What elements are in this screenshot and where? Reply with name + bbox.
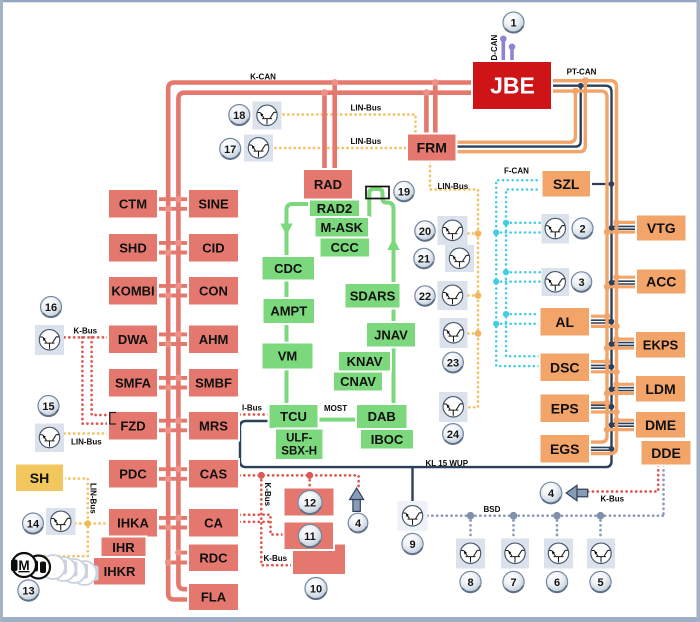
svg-text:CID: CID — [202, 240, 224, 255]
junction LIN-Bus at SH column — [85, 520, 92, 527]
node ball 9 — [402, 533, 423, 554]
module CCC — [320, 238, 371, 258]
wire F-CAN branch A to unit 2 — [506, 222, 542, 225]
svg-text:DME: DME — [645, 417, 676, 433]
wire K-CAN row stub upper row2 — [158, 241, 189, 245]
wire PT-CAN stub EPS lower — [590, 410, 617, 413]
junction navy stub — [609, 225, 615, 231]
module SH — [15, 464, 64, 493]
module DME — [635, 411, 686, 439]
svg-text:LDM: LDM — [645, 381, 675, 397]
svg-text:M: M — [18, 558, 29, 573]
node ball 15 — [38, 396, 59, 417]
node ball 18 — [229, 105, 250, 126]
svg-text:MOST: MOST — [324, 404, 347, 413]
junction PT-CAN LDM lower — [604, 390, 610, 396]
module box 10 — [292, 544, 346, 576]
svg-text:13: 13 — [22, 585, 34, 597]
wire PT-CAN stub DME lower — [607, 428, 635, 431]
wire PT-CAN stub DME upper — [617, 419, 636, 422]
svg-text:DWA: DWA — [118, 332, 149, 347]
antenna unit 9 — [398, 501, 428, 531]
module AL — [540, 307, 591, 337]
junction K-CAN row2 upper — [175, 240, 182, 247]
junction K-CAN FRM a — [432, 79, 439, 86]
svg-text:1: 1 — [510, 17, 516, 29]
wire K-CAN row stub upper row5 — [158, 376, 189, 380]
module DAB — [356, 404, 408, 429]
connector 19 diagnostic link — [366, 187, 389, 199]
wire K-CAN row stub lower row6 — [158, 428, 189, 432]
svg-text:SHD: SHD — [119, 240, 146, 255]
wire BSD drop to unit 6 — [556, 516, 559, 539]
svg-text:12: 12 — [304, 497, 316, 509]
wire K-CAN row stub lower row2 — [158, 251, 189, 255]
module CID — [188, 233, 239, 263]
module AHM — [188, 325, 239, 355]
svg-text:11: 11 — [304, 531, 316, 543]
wire F-CAN line A SZL to DSC — [496, 180, 541, 366]
junction K-CAN RDC lower — [165, 559, 172, 566]
junction F-CAN — [503, 311, 509, 317]
svg-text:ACC: ACC — [646, 274, 676, 290]
arrow 4 up near box 12 — [350, 488, 364, 511]
svg-text:19: 19 — [398, 186, 410, 198]
wire K-CAN row stub lower row4 — [158, 342, 189, 346]
svg-text:IHKA: IHKA — [117, 515, 149, 530]
module M-ASK — [315, 217, 370, 238]
svg-text:14: 14 — [27, 518, 40, 530]
wire navy stub ACC — [612, 281, 637, 284]
wire navy stub SZL — [591, 183, 612, 185]
module SMFA — [108, 368, 158, 398]
wire K-Bus drop b to FZD — [82, 337, 108, 423]
wire D-CAN pin b — [510, 47, 514, 62]
connector bracket at FZD — [110, 413, 116, 425]
wire LIN-Bus trunk from FRM bottom down middle — [430, 162, 478, 408]
wire navy stub EGS — [590, 447, 612, 450]
antenna unit 3 — [542, 268, 570, 296]
svg-text:EPS: EPS — [551, 400, 579, 416]
svg-text:24: 24 — [447, 429, 460, 441]
module ULF-SBX-H — [275, 429, 324, 461]
wire K-CAN row stub upper row1 — [158, 197, 189, 201]
wire MOST left branch RAD2 to TCU — [287, 204, 310, 404]
antenna unit 18 — [253, 102, 282, 130]
wire LIN-Bus branch to unit 22 — [468, 294, 478, 297]
module FRM — [407, 134, 457, 162]
svg-text:RDC: RDC — [199, 550, 228, 565]
svg-text:MRS: MRS — [199, 418, 228, 433]
svg-text:RAD: RAD — [314, 177, 342, 192]
junction navy stub — [609, 386, 615, 392]
junction F-CAN — [493, 321, 499, 327]
junction F-CAN — [503, 220, 509, 226]
terminal D-CAN a — [500, 36, 507, 43]
svg-text:23: 23 — [447, 357, 459, 369]
svg-text:CTM: CTM — [119, 196, 147, 211]
node ball 1 — [503, 12, 524, 33]
svg-text:4: 4 — [355, 518, 362, 530]
svg-text:FLA: FLA — [201, 590, 227, 605]
svg-text:21: 21 — [418, 253, 430, 265]
arrow MOST direction up — [387, 238, 399, 250]
wire F-CAN branch A to AL — [506, 313, 540, 316]
module DWA — [108, 325, 158, 355]
junction LIN-Bus on trunk at unit 23 — [475, 330, 482, 337]
wire LIN-Bus branch to unit 23 — [468, 332, 478, 335]
svg-text:22: 22 — [419, 291, 431, 303]
svg-text:VM: VM — [278, 349, 298, 364]
wire K-CAN drop to FRM a — [433, 83, 438, 135]
wire K-Bus drop a to FZD — [92, 337, 108, 415]
junction K-CAN row1 lower — [165, 206, 172, 213]
terminal D-CAN b — [509, 44, 516, 51]
module DSC — [540, 353, 591, 383]
svg-text:IHR: IHR — [112, 540, 135, 555]
module DDE — [641, 440, 692, 466]
junction K-CAN RAD a — [331, 79, 338, 86]
wire K-CAN row stub upper row4 — [158, 332, 189, 336]
wire K-Bus from CAS to arrow 4 — [240, 475, 359, 486]
module box 12 — [284, 488, 335, 517]
wire LIN-Bus from unit 17 to FRM left — [276, 147, 408, 150]
wire K-CAN drop to FRM b — [424, 93, 429, 134]
junction navy stub — [609, 446, 615, 452]
antenna unit 17 — [244, 135, 273, 162]
svg-text:AMPT: AMPT — [270, 304, 307, 319]
module CON — [188, 276, 239, 306]
svg-text:CAS: CAS — [200, 466, 228, 481]
wire K-CAN row stub lower row5 — [158, 386, 189, 390]
junction PT-CAN AL lower — [613, 323, 619, 329]
svg-text:10: 10 — [310, 583, 322, 595]
svg-text:CCC: CCC — [331, 240, 360, 255]
node ball 16 — [41, 297, 62, 318]
arrow 4 left near DDE — [566, 485, 588, 500]
junction BSD — [553, 512, 561, 520]
node ball 17 — [220, 138, 241, 159]
wire navy stub VTG — [612, 226, 637, 229]
junction K-CAN row4 lower — [165, 341, 172, 348]
junction PT-CAN ACC lower — [604, 284, 610, 290]
wire K-CAN upper from JBE to left spine — [168, 83, 472, 600]
module ACC — [636, 269, 687, 295]
svg-text:16: 16 — [45, 302, 57, 314]
wire LIN-Bus branch unit 14 to IHKA — [76, 522, 109, 525]
svg-text:JNAV: JNAV — [374, 327, 408, 342]
module KNAV — [338, 351, 391, 372]
wire PT-CAN orange loop a JBE to FRM — [457, 91, 576, 142]
junction PT-CAN VTG upper — [613, 219, 619, 225]
node ball 21 — [414, 248, 434, 268]
svg-text:SMBF: SMBF — [195, 375, 232, 390]
module FLA — [188, 583, 239, 611]
wire PT-CAN navy backbone from JBE to KL15 corner — [240, 86, 612, 467]
svg-text:9: 9 — [409, 539, 415, 551]
junction BSD — [467, 512, 475, 520]
svg-text:LIN-Bus: LIN-Bus — [438, 182, 469, 191]
junction LIN-Bus on trunk at unit 22 — [475, 292, 482, 299]
svg-text:JBE: JBE — [490, 73, 535, 99]
wire PT-CAN stub LDM lower — [607, 392, 635, 395]
module MRS — [188, 411, 239, 441]
junction navy SZL — [609, 181, 615, 187]
junction F-CAN — [503, 269, 509, 275]
antenna unit 6 — [544, 539, 573, 569]
node ball 14 — [23, 513, 44, 534]
wire PT-CAN stub AL upper — [590, 315, 607, 318]
junction K-CAN row8 upper — [175, 515, 182, 522]
svg-text:4: 4 — [548, 488, 555, 500]
module JNAV — [366, 322, 416, 348]
junction K-CAN row8 lower — [165, 524, 172, 531]
outer frame border — [0, 0, 700, 2]
antenna unit 23 — [440, 318, 468, 348]
wire PT-CAN stub ACC lower — [607, 285, 636, 288]
wire K-CAN stub RDC upper — [178, 551, 188, 555]
svg-text:KOMBI: KOMBI — [111, 283, 154, 298]
wire K-Bus CA to box 11 upper — [240, 515, 284, 535]
module SMBF — [188, 368, 239, 398]
motor actuator chain — [11, 553, 99, 585]
junction K-CAN row7 upper — [175, 466, 182, 473]
antenna unit 2 — [542, 214, 570, 244]
wire PT-CAN stub VTG lower — [607, 230, 636, 233]
junction K-CAN row6 upper — [175, 417, 182, 424]
module FZD — [108, 411, 158, 441]
module RDC — [188, 544, 239, 573]
svg-text:DAB: DAB — [368, 409, 396, 424]
junction navy stub — [609, 280, 615, 286]
junction PT-CAN VTG lower — [604, 229, 610, 235]
junction navy stub — [609, 341, 615, 347]
module IHKR — [93, 557, 146, 586]
junction K-CAN row1 upper — [175, 196, 182, 203]
svg-text:LIN-Bus: LIN-Bus — [351, 137, 382, 146]
junction PT-CAN ACC upper — [613, 274, 619, 280]
junction LIN-Bus on trunk at unit 20 — [475, 230, 482, 237]
wire PT-CAN stub AL lower — [590, 325, 617, 328]
wire LIN-Bus branch to unit 20 — [468, 232, 478, 235]
wire BSD drop to unit 5 — [599, 516, 602, 539]
junction K-CAN row2 lower — [165, 249, 172, 256]
wire I-Bus MRS to TCU — [240, 413, 269, 416]
wire K-Bus unit 16 to DWA — [65, 336, 109, 339]
wire K-CAN row stub lower row7 — [158, 477, 189, 481]
junction K-CAN row5 upper — [175, 375, 182, 382]
module CAS — [188, 459, 239, 489]
module PDC — [108, 459, 158, 489]
junction navy on loop — [578, 83, 584, 89]
wire PT-CAN stub LDM upper — [617, 383, 636, 386]
junction BSD — [510, 512, 518, 520]
junction navy stub — [609, 422, 615, 428]
wire PT-CAN stub EKPS lower — [607, 347, 635, 350]
svg-text:FRM: FRM — [417, 140, 447, 156]
module JBE junction box — [472, 61, 552, 110]
svg-text:K-CAN: K-CAN — [250, 73, 276, 82]
svg-text:F-CAN: F-CAN — [504, 167, 529, 176]
module LDM — [635, 375, 686, 403]
svg-text:5: 5 — [597, 577, 603, 589]
junction navy stub — [609, 404, 615, 410]
wire K-CAN row stub lower row3 — [158, 294, 189, 298]
junction PT-CAN on loop b — [582, 77, 589, 84]
junction F-CAN — [493, 279, 499, 285]
svg-text:17: 17 — [224, 144, 236, 156]
svg-text:3: 3 — [578, 277, 584, 289]
junction PT-CAN DSC lower — [613, 369, 619, 375]
node ball 2 — [572, 218, 593, 239]
wire F-CAN branch B to unit 3 — [496, 280, 541, 283]
junction PT-CAN EKPS upper — [613, 336, 619, 342]
wire BSD trunk from unit 9 to DDE column — [428, 514, 664, 517]
wire navy stub EPS — [590, 405, 612, 408]
svg-text:LIN-Bus: LIN-Bus — [89, 483, 98, 514]
svg-text:RAD2: RAD2 — [317, 201, 352, 216]
antenna unit 8 — [456, 539, 485, 569]
antenna unit 7 — [501, 539, 529, 569]
node ball 5 — [590, 571, 611, 592]
svg-text:IHKR: IHKR — [104, 564, 136, 579]
wire K-Bus branch to box 12 — [308, 475, 311, 487]
svg-text:LIN-Bus: LIN-Bus — [351, 104, 382, 113]
wire K-CAN row stub upper row8 — [158, 516, 189, 520]
module SDARS — [345, 283, 401, 309]
wire PT-CAN stub VTG upper — [617, 221, 637, 224]
svg-text:M-ASK: M-ASK — [320, 220, 363, 235]
wire K-CAN row stub upper row3 — [158, 284, 189, 288]
junction K-CAN row7 lower — [165, 476, 172, 483]
module EPS — [540, 394, 591, 424]
svg-text:FZD: FZD — [120, 418, 145, 433]
junction PT-CAN on loop a — [572, 88, 579, 95]
wire PT-CAN stub EKPS upper — [617, 338, 636, 341]
module VTG — [636, 215, 687, 242]
svg-text:2: 2 — [579, 223, 585, 235]
svg-text:PDC: PDC — [119, 466, 147, 481]
svg-text:SMFA: SMFA — [115, 375, 152, 390]
junction PT-CAN DME lower — [604, 426, 610, 432]
svg-text:SINE: SINE — [198, 196, 229, 211]
wire F-CAN branch A to unit 3 — [506, 271, 542, 274]
svg-text:EGS: EGS — [550, 441, 580, 457]
node ball 7 — [503, 571, 524, 592]
junction K-CAN row3 lower — [165, 292, 172, 299]
wire PT-CAN stub EPS upper — [590, 401, 607, 404]
module VM — [262, 343, 314, 370]
node ball 19 — [394, 181, 414, 201]
module EGS — [540, 434, 591, 464]
svg-text:8: 8 — [467, 577, 473, 589]
module CTM — [108, 189, 158, 219]
wire F-CAN branch B to unit 2 — [496, 231, 541, 234]
module KOMBI — [108, 276, 158, 306]
svg-text:EKPS: EKPS — [643, 337, 679, 352]
module CDC — [262, 256, 316, 281]
module SZL — [542, 170, 592, 198]
wire LIN-Bus from unit 15 to FZD — [65, 432, 109, 435]
wire navy stub EKPS — [612, 343, 636, 346]
wire K-Bus CA to box 11 lower — [240, 520, 271, 523]
svg-text:K-Bus: K-Bus — [263, 483, 272, 507]
svg-text:SDARS: SDARS — [350, 288, 396, 303]
svg-text:KL 15 WUP: KL 15 WUP — [426, 459, 469, 468]
module SHD — [108, 233, 158, 263]
wire K-CAN drop to RAD a — [332, 83, 337, 170]
svg-text:AL: AL — [555, 314, 574, 330]
svg-text:CA: CA — [204, 515, 223, 530]
svg-text:SH: SH — [30, 470, 49, 486]
junction navy stub — [609, 364, 615, 370]
node ball 23 — [443, 352, 464, 373]
wire K-CAN row stub lower row8 — [158, 526, 189, 530]
junction K-CAN RAD b — [321, 89, 328, 96]
svg-text:15: 15 — [42, 401, 54, 413]
wire F-CAN branch B to AL — [496, 323, 539, 326]
wire PT-CAN stub DSC upper — [590, 360, 607, 363]
svg-text:I-Bus: I-Bus — [242, 404, 263, 413]
module CNAV — [333, 372, 383, 392]
module RAD — [303, 169, 353, 200]
junction PT-CAN AL upper — [604, 313, 610, 319]
svg-text:SBX-H: SBX-H — [281, 446, 317, 458]
wire K-CAN row stub upper row6 — [158, 419, 189, 423]
node ball 6 — [546, 571, 567, 592]
junction navy stub — [609, 319, 615, 325]
module SINE — [188, 189, 239, 219]
wire K-CAN row stub upper row7 — [158, 467, 189, 471]
junction K-Bus at CAS column b — [306, 472, 313, 479]
wire PT-CAN orange loop b JBE to FRM — [457, 81, 586, 152]
module AMPT — [263, 298, 316, 324]
svg-text:DDE: DDE — [651, 445, 681, 461]
junction K-CAN RDC upper — [175, 549, 182, 556]
svg-text:VTG: VTG — [647, 220, 676, 236]
wire LIN-Bus from SH down to IHKA branch and motors — [30, 479, 88, 557]
wire BSD from DDE — [662, 466, 665, 516]
wire navy stub LDM — [612, 388, 636, 391]
wire D-CAN pin a — [501, 39, 505, 62]
svg-text:K-Bus: K-Bus — [601, 495, 625, 504]
node ball 4 right — [540, 482, 562, 504]
junction PT-CAN DME upper — [613, 417, 619, 423]
wire MOST right branch via connector to DAB — [369, 189, 393, 404]
svg-text:CDC: CDC — [274, 261, 303, 276]
svg-text:K-Bus: K-Bus — [74, 327, 98, 336]
svg-text:6: 6 — [554, 577, 560, 589]
svg-text:SZL: SZL — [553, 176, 580, 192]
module EKPS — [635, 331, 686, 359]
wire LIN-Bus from unit 18 to FRM top — [284, 115, 416, 134]
svg-text:TCU: TCU — [280, 409, 307, 424]
junction K-CAN row3 upper — [175, 283, 182, 290]
module TCU — [269, 404, 319, 429]
svg-text:IBOC: IBOC — [371, 432, 404, 447]
junction PT-CAN EPS upper — [604, 400, 610, 406]
svg-text:KNAV: KNAV — [347, 354, 383, 369]
module IHR — [101, 537, 147, 559]
antenna unit 22 — [438, 281, 468, 310]
wire K-CAN stub RDC lower — [168, 561, 188, 565]
node ball 20 — [415, 221, 435, 241]
antenna unit 5 — [587, 539, 615, 569]
wire BSD drop to unit 8 — [469, 516, 472, 539]
wire KL15 WUP drop to unit 9 — [411, 467, 413, 501]
junction K-CAN row4 upper — [175, 331, 182, 338]
svg-text:18: 18 — [233, 110, 245, 122]
